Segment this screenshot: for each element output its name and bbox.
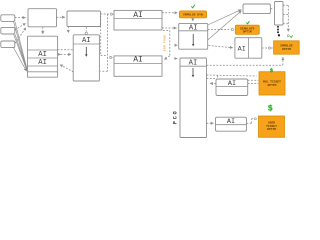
svg-text:AI: AI: [189, 60, 198, 68]
svg-text:PCO: PCO: [172, 109, 178, 124]
svg-text:AI: AI: [133, 56, 143, 65]
svg-text:OPTIM: OPTIM: [282, 48, 291, 51]
svg-text:OPTIM: OPTIM: [243, 31, 252, 34]
svg-text:AI: AI: [189, 25, 198, 33]
svg-text:AI: AI: [38, 59, 47, 67]
svg-text:OPTIM: OPTIM: [267, 128, 276, 131]
svg-text:$: $: [268, 104, 273, 113]
svg-text:AI: AI: [38, 51, 47, 59]
svg-text:AI: AI: [238, 46, 246, 54]
svg-text:ERR FDBK: ERR FDBK: [164, 35, 167, 51]
svg-text:OPTIM: OPTIM: [267, 84, 276, 87]
svg-text:AI: AI: [228, 80, 236, 88]
svg-text:IMPULSE DYN: IMPULSE DYN: [183, 13, 203, 16]
svg-text:AI: AI: [227, 118, 235, 126]
svg-text:AI: AI: [133, 11, 143, 20]
svg-text:AI: AI: [82, 37, 91, 45]
